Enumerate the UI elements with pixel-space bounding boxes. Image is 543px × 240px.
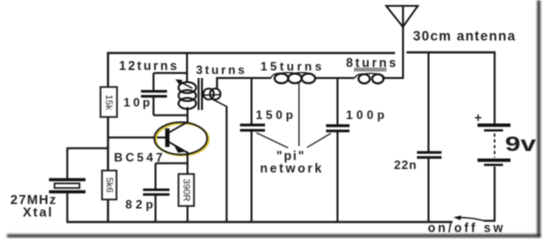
- svg-text:BC547: BC547: [114, 150, 163, 164]
- svg-text:22n: 22n: [394, 158, 416, 172]
- label 82p: [125, 198, 153, 212]
- transistor Q1 BC547 body: [154, 122, 207, 154]
- inductor L4 8turns loops: [355, 73, 385, 83]
- label 8turns: [346, 56, 396, 70]
- pi network pointer right: [307, 133, 331, 147]
- antenna triangle: [386, 6, 418, 27]
- capacitor C3 150p plates: [240, 125, 265, 130]
- wire left rail vertical (base bias chain): [107, 52, 109, 222]
- wire coil rail middle: [315, 77, 355, 79]
- pi network pointer left: [257, 133, 289, 148]
- svg-text:network: network: [260, 162, 322, 176]
- wire transformer primary top lead: [186, 52, 188, 83]
- svg-text:Xtal: Xtal: [23, 204, 52, 219]
- wire emitter vertical: [187, 152, 189, 223]
- wire crystal branch horizontal: [67, 147, 109, 149]
- wire coil rail left: [216, 77, 271, 79]
- svg-text:3turns: 3turns: [196, 63, 245, 77]
- svg-text:8turns: 8turns: [346, 56, 396, 70]
- label pi: [276, 149, 304, 163]
- resistor R1 15k: [101, 87, 118, 117]
- wire battery top lead: [494, 52, 496, 123]
- label 27MHz: [10, 192, 56, 207]
- label network: [260, 162, 322, 176]
- svg-text:5k6: 5k6: [104, 177, 115, 192]
- label 10p: [124, 95, 151, 109]
- svg-text:9v: 9v: [505, 133, 536, 156]
- label 30cm antenna: [413, 29, 515, 44]
- svg-text:150p: 150p: [256, 108, 293, 122]
- svg-text:15k: 15k: [103, 95, 114, 111]
- svg-text:30cm antenna: 30cm antenna: [413, 29, 515, 44]
- capacitor C2 82p plates: [143, 190, 170, 195]
- wire 10p top lead: [153, 73, 155, 91]
- label 15turns: [261, 59, 322, 73]
- wire 10p bottom lead: [153, 97, 155, 116]
- svg-text:on/off sw: on/off sw: [428, 221, 504, 235]
- wire 10p top connector: [154, 72, 188, 74]
- transistor Q1 BC547 yellow halo: [156, 123, 209, 155]
- resistor R3 390R: [179, 174, 195, 206]
- wire crystal bottom lead: [66, 192, 68, 222]
- wire crystal top lead: [66, 148, 68, 179]
- resistor R2 5k6: [102, 171, 117, 200]
- svg-text:12turns: 12turns: [119, 59, 177, 73]
- wire top rail right segment V+: [407, 51, 496, 53]
- inductor L4 8turns core bar: [354, 68, 387, 72]
- battery B1 9v cells: [478, 125, 511, 165]
- label 3turns: [196, 63, 245, 77]
- antenna mast: [402, 6, 404, 78]
- switch SW1 lever: [454, 216, 485, 221]
- wire 82p top lead: [155, 163, 157, 189]
- label 150p: [256, 108, 293, 122]
- label battery plus: [475, 111, 482, 125]
- wire primary bottom to collector: [187, 107, 189, 123]
- frame shadow right: [537, 0, 540, 237]
- inductor L3 15turns: [271, 73, 316, 84]
- label 12turns: [119, 59, 177, 73]
- inductor L2 secondary 3turns loops: [203, 89, 227, 107]
- inductor L1 tuning arrow: [175, 79, 192, 88]
- wire secondary top lead: [216, 78, 218, 89]
- wire top rail left segment V+: [107, 52, 395, 54]
- pi network pointer middle: [298, 83, 300, 146]
- label Xtal: [23, 204, 52, 219]
- crystal X1 27MHz: [49, 180, 86, 192]
- inductor L1 primary 12turns loops: [179, 82, 197, 109]
- label on/off sw: [428, 221, 504, 235]
- wire 82p bottom lead: [155, 194, 157, 222]
- label BC547: [114, 150, 163, 164]
- svg-text:+: +: [475, 111, 482, 125]
- wire 10p bottom connector: [154, 114, 188, 116]
- wire secondary bottom drop: [226, 106, 228, 222]
- wire base wire to transistor: [108, 137, 168, 139]
- capacitor C5 22n plates: [417, 152, 442, 157]
- svg-text:390R: 390R: [181, 179, 192, 202]
- wire 100p branch: [337, 78, 339, 222]
- wire bottom ground rail: [67, 221, 453, 223]
- wire 22n branch: [428, 52, 430, 222]
- frame shadow bottom: [7, 234, 541, 237]
- label 9v: [505, 133, 536, 156]
- label 22n: [394, 158, 416, 172]
- wire battery bottom lead: [484, 167, 496, 221]
- transformer T1 core: [199, 78, 202, 110]
- label 100p: [346, 108, 385, 122]
- svg-text:100p: 100p: [346, 108, 385, 122]
- svg-text:82p: 82p: [125, 198, 153, 212]
- wire 150p branch: [251, 78, 253, 222]
- svg-text:10p: 10p: [124, 95, 151, 109]
- capacitor 10p plates: [141, 91, 167, 96]
- wire emitter to 82p connector: [156, 162, 188, 164]
- capacitor C4 100p plates: [326, 126, 350, 131]
- wire coil rail right to antenna: [384, 77, 404, 79]
- svg-text:15turns: 15turns: [261, 59, 322, 73]
